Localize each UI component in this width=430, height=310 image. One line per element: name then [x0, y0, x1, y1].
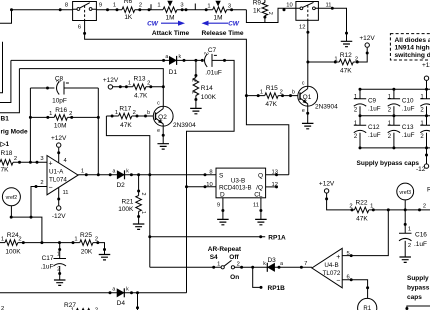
svg-text:10: 10: [286, 2, 292, 8]
svg-text:1: 1: [408, 227, 411, 233]
svg-text:.01uF: .01uF: [205, 69, 222, 76]
wire loop B horizontal to Q2 collector: [19, 69, 163, 106]
svg-text:1: 1: [49, 111, 52, 117]
svg-text:2: 2: [355, 56, 358, 62]
junction dot D stem: [221, 209, 224, 212]
svg-text:C13: C13: [402, 124, 414, 131]
svg-text:1: 1: [140, 211, 146, 214]
junction dots on pin3 wire: [18, 161, 39, 164]
wire main top net segment to switch S1A pin 8: [12, 9, 73, 11]
svg-text:R15: R15: [266, 85, 278, 92]
+12V supply circle at R22: [324, 189, 328, 193]
svg-text:R18: R18: [1, 150, 13, 157]
svg-text:a: a: [112, 168, 115, 174]
ground for U3 CL pin: [255, 219, 267, 224]
resistor R9: [262, 3, 268, 16]
capacitor C13 plates: [388, 125, 400, 132]
switch S1B contacts and lever: [296, 2, 319, 20]
junction dots R24-R25 wire: [22, 241, 75, 244]
wire switch pin 9 to R6: [96, 9, 122, 11]
svg-text:1: 1: [57, 252, 60, 258]
svg-text:3: 3: [40, 156, 43, 162]
capacitor C16 plates: [399, 233, 412, 241]
svg-text:CW: CW: [228, 21, 240, 28]
svg-text:caps: caps: [407, 294, 422, 301]
release CW arrow blue: [202, 21, 229, 26]
junction dot -12 stem: [425, 154, 428, 157]
wire U4-B pin 5 to R22 node: [342, 210, 388, 256]
svg-text:vref2: vref2: [6, 195, 18, 201]
svg-text:2: 2: [267, 12, 273, 15]
svg-text:1: 1: [74, 236, 77, 242]
svg-text:+12V: +12V: [103, 77, 119, 84]
wire C11 top stem: [426, 89, 428, 98]
op-amp U1-A triangle: [47, 156, 78, 195]
wire from left edge up to main top wire: [0, 10, 12, 24]
svg-text:100K: 100K: [118, 206, 134, 213]
wire C7 right to down-left loop: [187, 60, 235, 292]
capacitor C17 plates: [54, 259, 67, 267]
wire Q2 emitter to ground: [162, 126, 164, 144]
junction dots pin6 wire: [83, 32, 248, 97]
wire R21 bottom stem: [138, 212, 140, 225]
svg-text:k: k: [126, 286, 129, 292]
wire R17 left stub: [106, 115, 118, 117]
wire jog down under R9: [246, 8, 296, 22]
vref3 source circle: [397, 183, 414, 200]
junction dots on output wire: [85, 173, 207, 176]
wire attack pot to release pot: [177, 9, 213, 11]
ground for C16: [399, 257, 411, 262]
capacitor C14 plates: [420, 125, 430, 132]
ground for U3 D pin: [217, 219, 229, 224]
svg-text:C10: C10: [402, 97, 414, 104]
junction dot R27 branch: [136, 306, 139, 309]
junction dot S4 pin1: [212, 266, 215, 269]
svg-text:rig Mode: rig Mode: [1, 129, 28, 136]
wire R12 pin 1 to Q1 collector node: [308, 61, 339, 63]
svg-text:CL: CL: [254, 192, 263, 199]
junction dots between pots: [181, 8, 208, 11]
junction dot on R9 bottom node: [263, 16, 266, 19]
svg-text:4.7K: 4.7K: [134, 93, 148, 100]
svg-text:C17: C17: [42, 255, 54, 262]
svg-text:c: c: [157, 100, 160, 106]
svg-text:9: 9: [99, 2, 102, 8]
svg-text:R22: R22: [356, 199, 368, 206]
svg-text:On: On: [230, 274, 239, 281]
svg-text:+12V: +12V: [359, 35, 375, 42]
svg-text:TL074: TL074: [49, 176, 67, 183]
wire C10 bottom stem: [393, 106, 395, 116]
resistor R14: [193, 78, 199, 96]
resistor R12: [339, 59, 353, 65]
wire loop B left stub: [0, 69, 19, 113]
svg-text:R24: R24: [7, 232, 19, 239]
svg-text:U3-B: U3-B: [231, 178, 245, 185]
svg-text:a: a: [112, 286, 115, 292]
resistor R25: [80, 240, 93, 246]
wire Q1 emitter to ground: [307, 106, 309, 123]
svg-text:k: k: [263, 261, 266, 267]
svg-text:b: b: [147, 110, 150, 116]
wire C14 bottom stem: [426, 133, 428, 148]
attack pot wiper arrow: [167, 1, 172, 7]
capacitor C12 plates: [354, 125, 366, 132]
ground for switch pin 11: [341, 41, 353, 46]
svg-text:2: 2: [1, 306, 4, 310]
svg-text:a: a: [280, 261, 283, 267]
svg-text:2N3904: 2N3904: [173, 122, 196, 129]
resistor R16: [54, 115, 67, 121]
junction dot bottom right: [405, 307, 408, 310]
svg-text:20K: 20K: [81, 249, 93, 256]
wire R16 left: [30, 116, 54, 118]
switch S1A box (pins 8/9/6): [73, 2, 97, 21]
svg-text:3: 3: [180, 2, 183, 8]
junction dots R22 left: [325, 197, 353, 211]
junction dot C8 left: [46, 87, 49, 90]
svg-text:k: k: [126, 168, 129, 174]
wire C13 bottom stem: [393, 133, 395, 148]
vref2 source circle: [2, 188, 20, 206]
svg-text:2: 2: [18, 236, 21, 242]
transistor Q1: [298, 86, 318, 106]
wire U1-A pin 4 stem: [58, 148, 60, 163]
junction dots R12 pin1 and collector node: [306, 61, 336, 64]
svg-text:1: 1: [128, 81, 131, 87]
wire R18 to U1-A pin 3: [13, 161, 47, 163]
stub above wire near attack pot: [150, 4, 152, 10]
svg-text:RP1B: RP1B: [268, 285, 286, 292]
svg-text:1M: 1M: [165, 15, 174, 22]
junction dot Q1 emitter: [306, 112, 309, 115]
junction dot on pin11 stem: [57, 198, 60, 201]
svg-text:All diodes a: All diodes a: [395, 37, 430, 44]
junction dots R16 left: [29, 116, 49, 119]
junction dots on pin 11 wire: [331, 7, 348, 35]
junction dots bottom wire: [109, 291, 140, 294]
switch S1A contacts and lever: [73, 3, 97, 21]
svg-text:2: 2: [55, 80, 61, 83]
wire C10 top stem: [393, 89, 395, 98]
wire vref2 to junction: [11, 206, 42, 243]
ground for R25: [99, 255, 111, 260]
wire feedback left vertical: [29, 88, 31, 162]
wire loop A horizontal (D1 anode net): [11, 59, 169, 61]
svg-text:1: 1: [217, 262, 220, 268]
svg-text:+: +: [336, 254, 340, 261]
svg-text:Q: Q: [258, 172, 263, 179]
junction dots Q1 base: [281, 94, 292, 97]
resistor R15: [265, 93, 278, 99]
svg-text:U4-B: U4-B: [324, 262, 338, 269]
svg-text:1: 1: [157, 2, 160, 8]
junction dots on R input wire: [185, 185, 207, 188]
svg-text:U1-A: U1-A: [49, 168, 64, 175]
svg-text:1: 1: [113, 2, 116, 8]
svg-text:1: 1: [207, 4, 210, 10]
svg-text:1M: 1M: [213, 15, 222, 22]
svg-text:2: 2: [14, 156, 17, 162]
svg-text:R12: R12: [340, 52, 352, 59]
svg-text:−: −: [48, 184, 52, 191]
wire D1 cathode to C7: [177, 59, 203, 61]
wire into S4 pin 1: [150, 266, 221, 268]
svg-text:1: 1: [81, 168, 84, 174]
capacitor C11 plates: [420, 99, 430, 106]
svg-text:1K: 1K: [253, 7, 262, 14]
svg-text:11: 11: [326, 2, 332, 8]
wire C9 top stem: [359, 89, 361, 98]
svg-text:1N914 high: 1N914 high: [395, 45, 430, 52]
wire C17 bottom stem: [59, 266, 61, 280]
svg-text:11: 11: [63, 190, 69, 196]
-12V supply circle at U1-A pin11: [57, 206, 61, 210]
potentiometer VR-attack 1M: [163, 7, 177, 13]
junction dots after D1: [183, 59, 204, 62]
svg-text:100K: 100K: [201, 94, 217, 101]
wire U3 Q output pin13: [266, 174, 289, 176]
svg-text:R6: R6: [124, 0, 133, 5]
wire R15 pin 2 to Q1 base: [278, 95, 298, 97]
wire C12 bottom stem: [359, 133, 361, 148]
wire C16 bottom stem: [404, 241, 406, 257]
wire C9 bottom stem: [359, 106, 361, 116]
wire RP1B branch: [253, 267, 261, 287]
wire U1-A pin 11 stem: [58, 187, 60, 205]
svg-text:RP1A: RP1A: [268, 234, 286, 241]
wire R6 to attack pot: [135, 9, 163, 11]
svg-text:.1uF: .1uF: [40, 264, 53, 271]
wire C16 top stem: [404, 210, 406, 233]
wire C13 top stem: [393, 116, 395, 125]
svg-text:2: 2: [140, 193, 146, 196]
diode D4: [117, 288, 124, 297]
svg-text:1: 1: [260, 89, 263, 95]
resistor R22: [354, 207, 368, 213]
wire U4-B pin 6 to R1 circle: [342, 280, 367, 299]
-12 supply circle clipped: [424, 164, 428, 168]
ground for Q1: [302, 123, 314, 128]
junction dot CL stem: [259, 209, 262, 212]
wire far left edge vertical: [0, 42, 3, 93]
svg-text:10pF: 10pF: [52, 97, 67, 104]
junction dots vref2 net: [10, 216, 44, 245]
svg-text:Release Time: Release Time: [201, 30, 243, 37]
svg-text:6: 6: [78, 25, 81, 31]
junction dots R14 pins: [194, 74, 197, 101]
wire release pot to jog corner: [227, 9, 247, 11]
svg-text:D4: D4: [117, 300, 126, 307]
junction dots on top wire: [10, 8, 62, 11]
svg-text:.1uF: .1uF: [414, 241, 427, 248]
wire R24 left stub: [0, 242, 5, 244]
wire R21 top stem: [138, 175, 140, 196]
wire R15 left: [246, 95, 264, 97]
wire U3 CL pin stem: [260, 198, 262, 220]
svg-text:1: 1: [1, 236, 4, 242]
svg-text:2: 2: [408, 243, 411, 249]
wire U3 /Q output pin12 stub: [266, 186, 278, 188]
svg-text:.1uF: .1uF: [368, 132, 381, 139]
svg-text:R25: R25: [80, 232, 92, 239]
attack CW arrow blue: [161, 21, 185, 26]
svg-text:2: 2: [139, 2, 142, 8]
ground for C17: [54, 280, 65, 285]
svg-text:2: 2: [423, 204, 426, 210]
junction dot C16 pin1: [404, 223, 407, 226]
svg-text:Q2: Q2: [158, 114, 167, 121]
note box dashed (all diodes are 1N914): [390, 34, 430, 60]
wire U3 D pin stem: [222, 198, 224, 220]
wire R9 top to edge: [264, 0, 266, 3]
svg-text:D: D: [220, 192, 225, 199]
svg-text:8: 8: [65, 2, 68, 8]
wire switch pin6 run to R15 and U3 Q loop: [85, 21, 289, 175]
wire -12 stem at bus bottom: [426, 148, 428, 164]
svg-text:D1: D1: [169, 69, 178, 76]
svg-text:AR-Repeat: AR-Repeat: [208, 246, 242, 253]
capacitor C8: [57, 82, 69, 95]
svg-text:Q1: Q1: [303, 94, 312, 101]
wire +12V circle to R13: [113, 86, 133, 88]
svg-text:2N3904: 2N3904: [315, 104, 338, 111]
svg-text:R: R: [219, 185, 224, 192]
svg-text:b: b: [292, 90, 295, 96]
junction dots R22 right wire: [372, 208, 421, 211]
wire R22 pin1 to right edge: [369, 209, 430, 211]
svg-text:S: S: [219, 172, 224, 179]
svg-text:2: 2: [191, 79, 197, 82]
svg-text:+12V: +12V: [319, 181, 335, 188]
diode D3: [267, 263, 274, 272]
svg-text:10M: 10M: [54, 122, 67, 129]
svg-text:k: k: [179, 54, 182, 60]
junction dots R13 right: [149, 85, 165, 88]
+12 supply circle clipped: [424, 76, 428, 80]
junction dot after C7: [223, 59, 226, 62]
flip-flop U3-B box: [216, 168, 266, 198]
junction dot C17 pin2: [58, 272, 61, 275]
svg-text:12: 12: [299, 25, 305, 31]
svg-text:D2: D2: [116, 182, 125, 189]
resistor R6: [122, 7, 135, 13]
svg-text:TL072: TL072: [323, 270, 341, 277]
wire RP1A net: [150, 236, 265, 238]
wire +12 stem at bus top: [426, 81, 428, 89]
switch S4 contacts: [221, 260, 234, 269]
+12V supply circle at U1-A pin4: [57, 143, 61, 147]
svg-text:1: 1: [191, 91, 197, 94]
wire +12V to R12 pin 2: [353, 48, 367, 62]
svg-text:R13: R13: [134, 75, 146, 82]
wire U3 R input: [187, 186, 217, 188]
wire U1-A output to U3 S pin: [78, 174, 216, 176]
svg-text:switching di: switching di: [395, 52, 430, 59]
svg-text:100K: 100K: [5, 249, 21, 256]
svg-text:−: −: [336, 278, 340, 285]
wire R16 right: [67, 116, 98, 118]
capacitor C10 plates: [388, 99, 400, 106]
svg-text:bypass: bypass: [407, 285, 430, 292]
+12V supply circle at R13: [108, 85, 112, 89]
svg-text:+: +: [48, 160, 52, 167]
junction dot R21 pin1: [137, 215, 140, 218]
wire C8 right: [64, 87, 98, 89]
svg-text:C16: C16: [415, 231, 427, 238]
junction dots Q2 base: [136, 115, 148, 118]
junction dot D1 anode: [162, 59, 165, 62]
svg-text:2: 2: [133, 110, 136, 116]
wire D2 node down to S4 switch: [149, 175, 151, 267]
capacitor C7: [205, 54, 217, 67]
svg-text:.1uF: .1uF: [368, 105, 381, 112]
svg-text:CD4013-B: CD4013-B: [223, 185, 251, 191]
svg-text:8: 8: [209, 170, 212, 176]
junction dot pin5 wire: [350, 254, 353, 257]
svg-text:C12: C12: [368, 124, 380, 131]
wire R24 to R25: [18, 242, 80, 244]
svg-text:7K: 7K: [1, 167, 10, 174]
svg-text:C9: C9: [368, 97, 377, 104]
connector circle R1 at bottom: [358, 298, 377, 310]
svg-text:2: 2: [203, 52, 209, 55]
svg-text:c: c: [302, 80, 305, 86]
svg-text:a: a: [165, 54, 168, 60]
junction dots on buses: [359, 88, 429, 150]
diode D2: [117, 170, 124, 179]
wire feedback right vertical to op-amp output: [97, 88, 99, 175]
wire vref3 stem: [404, 200, 406, 210]
svg-text:e: e: [157, 128, 160, 134]
wire R14 top stem: [195, 60, 197, 77]
svg-text:R1: R1: [363, 306, 371, 310]
svg-text:7: 7: [304, 261, 307, 267]
svg-text:R9: R9: [253, 0, 262, 7]
junction dots after R6: [138, 8, 150, 11]
svg-text:11: 11: [253, 202, 259, 208]
svg-text:vref3: vref3: [399, 190, 411, 196]
svg-text:+12: +12: [422, 62, 430, 69]
wire C14 top stem: [426, 116, 428, 125]
junction dot on Q output wire: [275, 173, 278, 176]
resistor R13: [133, 84, 146, 90]
svg-text:B1: B1: [1, 116, 10, 123]
switch S1B box (pins 10/11/12): [296, 2, 319, 21]
junction dot on /Q stub: [275, 185, 278, 188]
junction dots RP1A: [148, 235, 262, 238]
wire C11 bottom stem: [426, 106, 428, 116]
junction dot on pin2 wire: [35, 185, 38, 188]
wire R17 left loop: [106, 116, 149, 175]
wire bottom right corner: [407, 306, 430, 310]
resistor R17: [119, 113, 132, 119]
release pot wiper arrow: [215, 1, 220, 7]
resistor R24: [5, 240, 18, 246]
svg-text:/Q: /Q: [256, 185, 263, 192]
wire R17 pin 2 to Q2 base: [132, 115, 153, 117]
wire R14 bottom stem: [195, 96, 197, 109]
svg-text:Supply: Supply: [407, 275, 429, 282]
junction dot R25 right: [96, 241, 106, 251]
svg-text:2: 2: [40, 180, 43, 186]
wire -12 bus: [360, 147, 430, 149]
junction dot R17 pin1: [111, 115, 114, 118]
wire bottom net with D4: [0, 292, 187, 294]
svg-text:47K: 47K: [356, 215, 368, 222]
wire R25 to ground: [93, 243, 105, 255]
